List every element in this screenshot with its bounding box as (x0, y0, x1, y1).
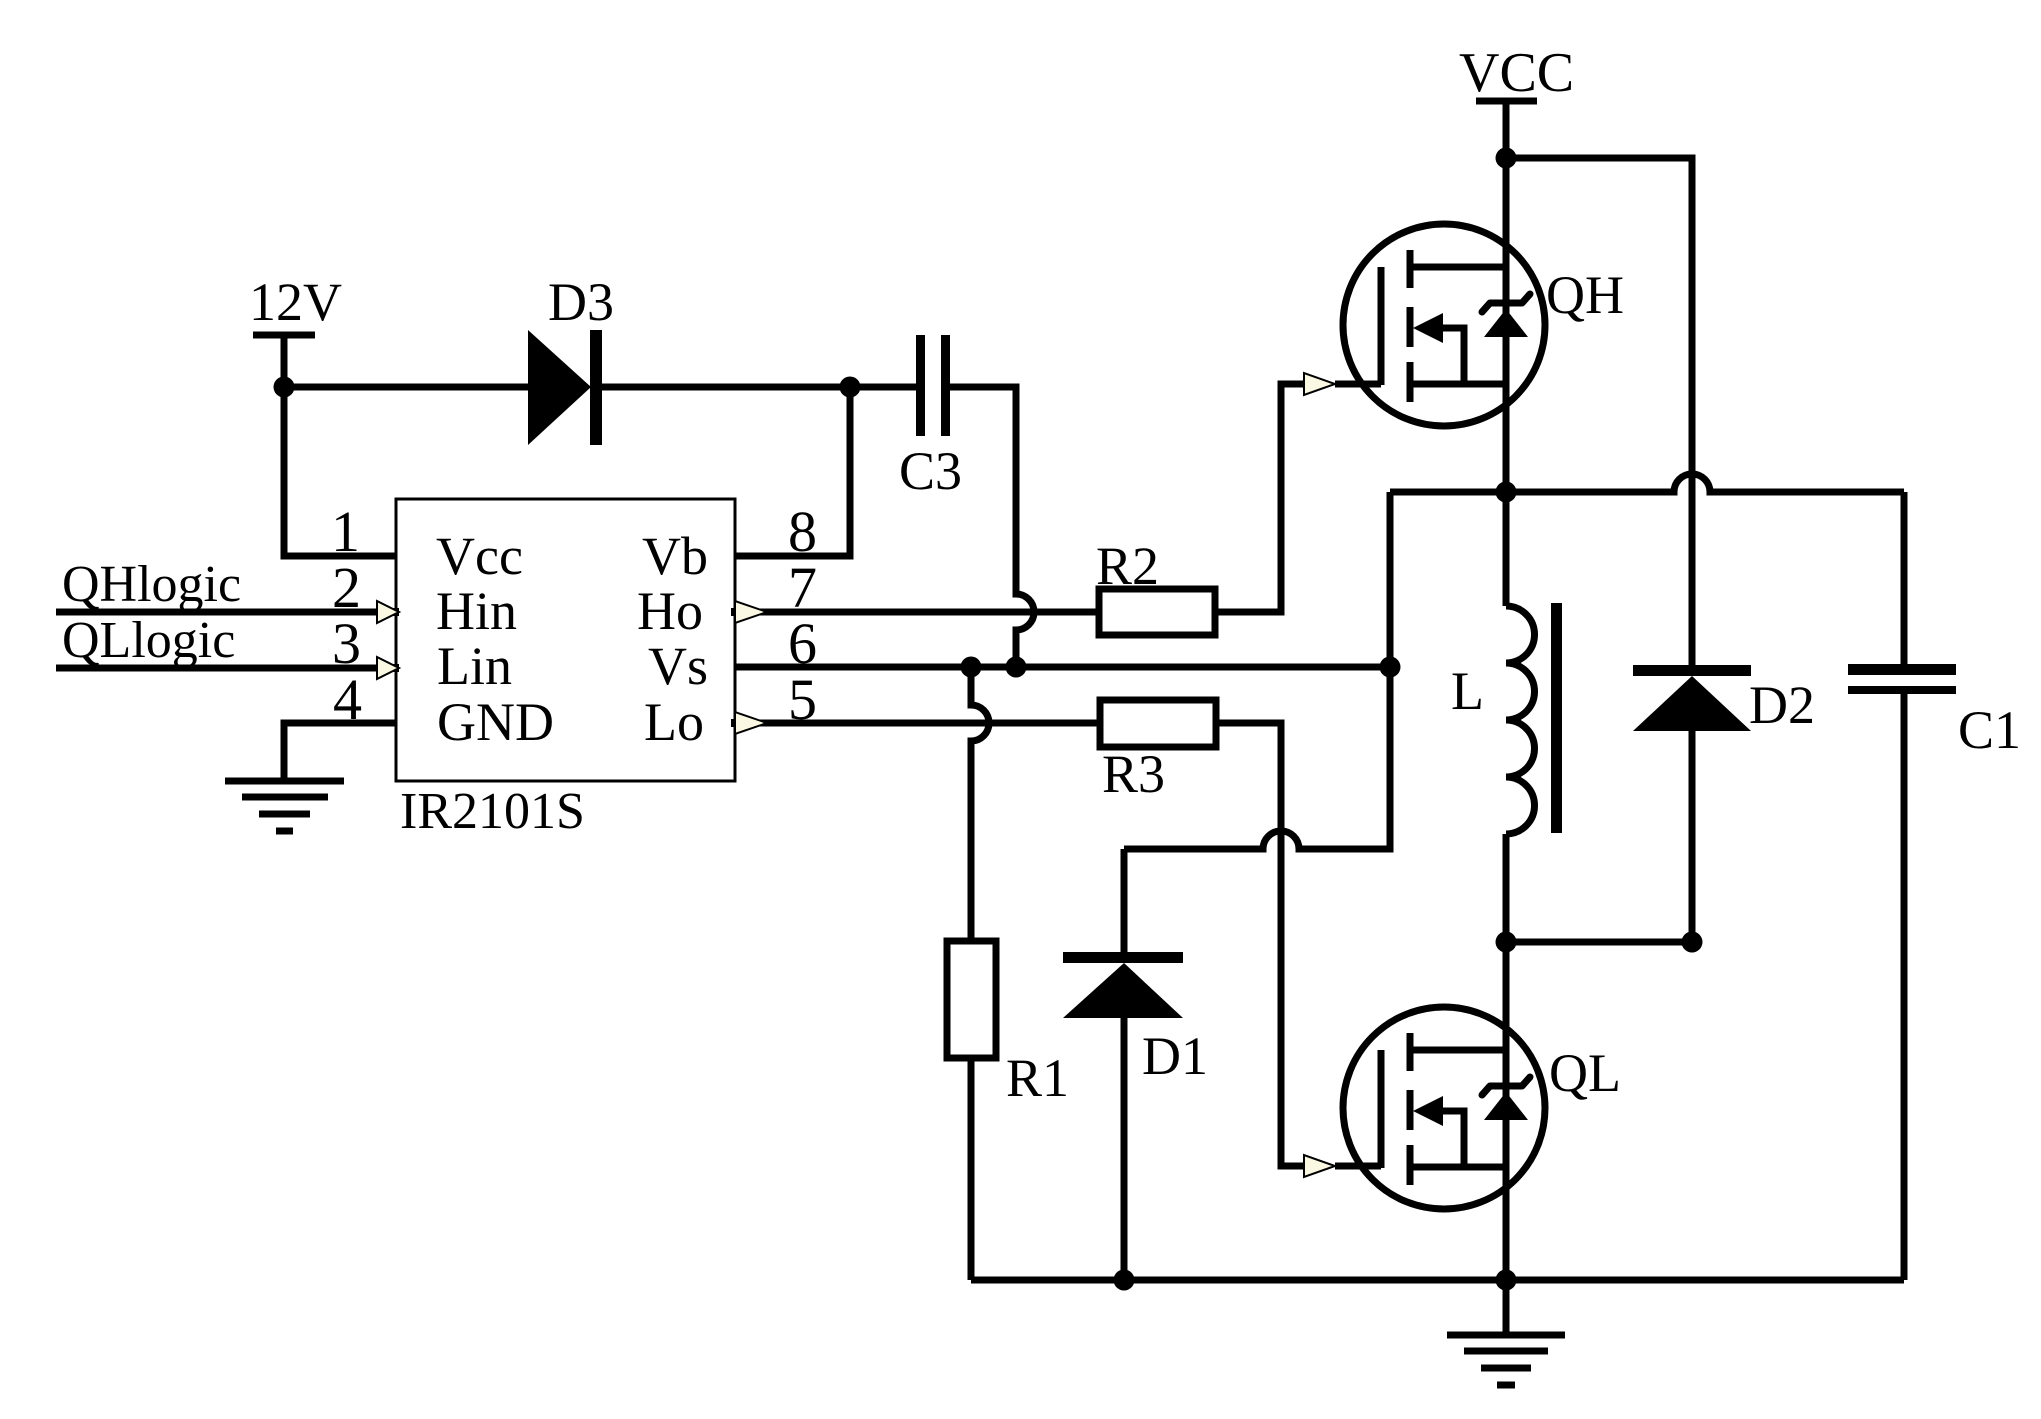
svg-text:Lin: Lin (437, 636, 512, 696)
wire 12V stub down to node (281, 335, 288, 387)
node junction at 12V rail (274, 377, 295, 398)
wire D1 top to switch leg (hops over QL gate wire) (1124, 667, 1390, 849)
pin 5 stub (731, 719, 739, 727)
arrowhead QL gate (1304, 1155, 1335, 1177)
wire pin 6 Vs line (735, 664, 1390, 671)
pin 2 stub (390, 608, 399, 616)
pin 7 stub (731, 608, 739, 616)
arrowhead pin 3 input (377, 657, 399, 679)
svg-text:QH: QH (1546, 265, 1624, 325)
svg-text:Ho: Ho (637, 581, 703, 641)
pin 3 stub (390, 664, 399, 672)
wire switch node horizontal (hops over D2 branch) (1390, 474, 1904, 492)
svg-text:Lo: Lo (644, 692, 704, 752)
node junction Vs/R1 (961, 657, 982, 678)
svg-text:D2: D2 (1749, 675, 1815, 735)
wire switch node corner down to Vs (1387, 492, 1394, 667)
wire Vs down to R1 (hops over Lo wire) (971, 667, 989, 941)
arrowhead pin 7 output (735, 601, 767, 623)
arrowhead QH gate (1304, 373, 1335, 395)
wire ground bus bottom (971, 1277, 1904, 1284)
wire pin 8 Vb up to D3/C3 node (735, 387, 850, 556)
svg-text:VCC: VCC (1459, 42, 1574, 104)
node junction L bottom / QL drain (1496, 932, 1517, 953)
wire QL drain from L node (1503, 942, 1510, 1280)
wire switch node to C1 top (1901, 492, 1908, 664)
svg-text:Hin: Hin (436, 581, 517, 641)
svg-text:D1: D1 (1142, 1026, 1208, 1086)
wire R3 to QL gate (1216, 723, 1304, 1166)
svg-text:Vs: Vs (648, 636, 708, 696)
inductor L (1451, 492, 1562, 942)
IC U1 IR2101S box (396, 499, 735, 781)
svg-text:GND: GND (437, 692, 554, 752)
node junction QL source on ground bus (1496, 1270, 1517, 1291)
transistor QL (N-MOSFET) (1335, 1007, 1621, 1209)
arrowhead pin 5 output (735, 712, 767, 734)
wire R2 to QH gate (1215, 384, 1304, 612)
wire L bottom to D2 anode (1506, 939, 1692, 946)
resistor R1 (947, 941, 1069, 1108)
svg-text:QLlogic: QLlogic (62, 612, 235, 669)
svg-text:IR2101S: IR2101S (400, 783, 585, 840)
wire 12V node to D3 anode (284, 384, 528, 391)
diode D3 (528, 272, 614, 445)
arrowhead pin 2 input (377, 601, 399, 623)
wire VCC to D2 cathode branch (1506, 158, 1692, 665)
capacitor C1 (1848, 664, 2021, 1280)
resistor R2 (1096, 536, 1215, 635)
wire VCC stub (1503, 101, 1510, 158)
wire D3 cathode to node (602, 384, 850, 391)
transistor QH (N-MOSFET) (1335, 224, 1624, 426)
wire QHlogic to pin 2 (56, 609, 377, 616)
resistor R3 (1100, 700, 1216, 804)
wire node to C3 left plate (850, 384, 916, 391)
capacitor C3 (899, 335, 962, 501)
diode D2 (1633, 665, 1815, 942)
node junction at Vb/C3 (840, 377, 861, 398)
node junction C3 wire on Vs net (1006, 657, 1027, 678)
wire pin 5 Lo to R3 (751, 720, 1100, 727)
power VCC bar symbol (1476, 98, 1537, 105)
wire C3 right plate down to Vs net (hops over Ho wire) (950, 387, 1034, 667)
svg-text:R2: R2 (1096, 536, 1159, 596)
ground symbol at pin 4 (225, 781, 344, 831)
wire pin1 Vcc from 12V node (284, 387, 396, 556)
svg-text:C1: C1 (1958, 700, 2021, 760)
svg-text:C3: C3 (899, 441, 962, 501)
wire VCC down to QH drain / switch node (1503, 158, 1510, 492)
svg-text:QL: QL (1549, 1043, 1621, 1103)
ground symbol at bottom (1447, 1280, 1565, 1385)
svg-text:Vcc: Vcc (436, 526, 523, 586)
node junction Vs at switch leg (1380, 657, 1401, 678)
wire R1 bottom to ground line (968, 1058, 975, 1280)
svg-text:D3: D3 (548, 272, 614, 332)
svg-text:R1: R1 (1006, 1048, 1069, 1108)
node junction D2 anode (1682, 932, 1703, 953)
wire pin 4 to ground (284, 723, 396, 781)
svg-text:L: L (1451, 661, 1484, 721)
svg-text:Vb: Vb (642, 526, 708, 586)
node junction switch node at QH source (1496, 482, 1517, 503)
power 12V bar symbol (253, 332, 315, 339)
svg-text:12V: 12V (249, 272, 342, 332)
diode D1 (1063, 849, 1208, 1280)
svg-text:QHlogic: QHlogic (62, 556, 241, 613)
wire pin 7 Ho to R2 (751, 609, 1099, 616)
node junction D1 anode on ground line (1114, 1270, 1135, 1291)
svg-text:R3: R3 (1102, 744, 1165, 804)
wire QLlogic to pin 3 (56, 665, 377, 672)
node junction at VCC rail (1496, 148, 1517, 169)
